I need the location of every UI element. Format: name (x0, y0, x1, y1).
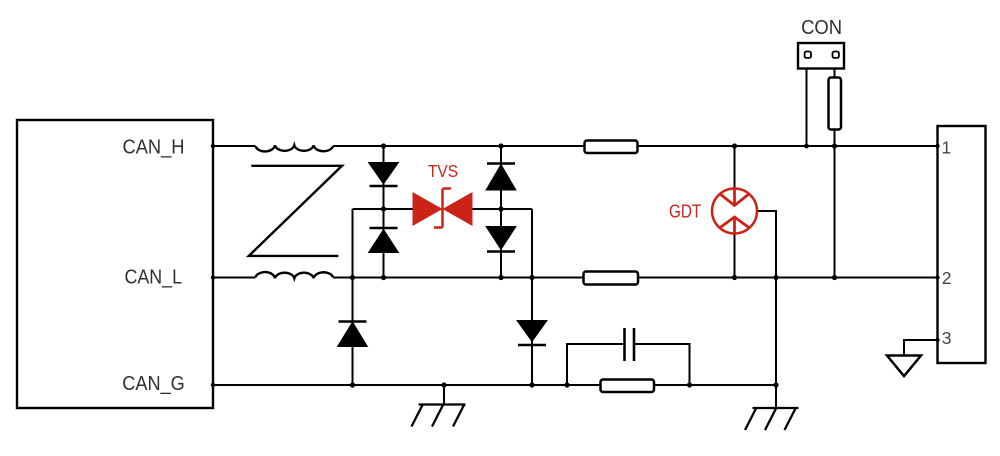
GDT gas discharge tube (712, 189, 757, 234)
wire capacitor left riser (567, 344, 625, 385)
resistor R3 (CAN_G series) (601, 380, 655, 393)
node CAN_H / CON pin 2 (832, 143, 837, 148)
wire CAN_H resistor R1 to connector pin 1 (638, 145, 938, 147)
TVS bidirectional diode (413, 189, 473, 228)
wire CON right pin to resistor R4 (834, 69, 836, 79)
node CAN_L / D2 column (381, 275, 386, 280)
node TVS row / D1 column (381, 206, 386, 211)
ground symbol right (hatched) (745, 408, 799, 430)
wire TVS row right (472, 208, 532, 210)
CON pin hole 1 (805, 52, 811, 58)
node TVS row / D3 column (498, 206, 503, 211)
node CAN_L / GDT (732, 275, 737, 280)
earth arrow pin 3 (887, 356, 921, 377)
wire ground stub left (443, 385, 445, 405)
svg-text:1: 1 (942, 137, 952, 157)
capacitor C1 plates (625, 328, 635, 361)
right connector J1 box (938, 126, 986, 363)
transformer core Z symbol (249, 166, 342, 256)
node CAN_G / left clamp diode D5 (350, 382, 355, 387)
resistor R4 (CON pull) (829, 78, 842, 130)
node CAN_G / right clamp diode D6 (529, 382, 534, 387)
wire vertical diode column D3/D4 (500, 146, 502, 278)
node CAN_G / GDT ground line (773, 382, 778, 387)
svg-text:3: 3 (942, 328, 952, 348)
node CAN_H at J1 pin 1 (935, 144, 939, 148)
inductor L2 (CAN_L choke winding) (256, 272, 334, 278)
wire CAN_L resistor R2 to connector pin 2 (638, 277, 938, 279)
svg-text:TVS: TVS (428, 161, 458, 181)
node CAN_H / D1 column (381, 143, 386, 148)
wire CAN_G from box to resistor R3 (213, 384, 601, 386)
diode D5 (up) (339, 322, 367, 347)
svg-text:CON: CON (801, 17, 842, 39)
wire vertical left clamp branch (352, 209, 354, 385)
left IC box (17, 120, 213, 408)
node CAN_L / right clamp (529, 275, 534, 280)
resistor R1 (CAN_H series) (585, 141, 638, 154)
node CAN_G at box pin (211, 383, 215, 387)
wire GDT bottom lead (734, 235, 736, 278)
node pin 3 at J1 (935, 338, 939, 342)
CON pin hole 2 (833, 52, 839, 58)
node CAN_G / capacitor right riser (687, 382, 692, 387)
node CAN_L / CON pin 2 line (832, 275, 837, 280)
node CAN_L at J1 pin 2 (935, 275, 939, 279)
wire vertical diode column D1/D2 (383, 146, 385, 278)
ground symbol left (hatched) (412, 405, 466, 427)
wire capacitor right riser (634, 344, 690, 385)
svg-text:CAN_G: CAN_G (122, 372, 185, 395)
node CAN_H at box pin (211, 144, 215, 148)
svg-text:GDT: GDT (669, 201, 701, 222)
connector CON box (798, 43, 844, 69)
wire GDT center tap to ground (758, 211, 776, 408)
wire CAN_H choke to resistor R1 (333, 145, 585, 147)
diode D2 (up) (370, 228, 398, 252)
node CAN_L at box pin (211, 275, 215, 279)
node CAN_L / GDT ground line (773, 275, 778, 280)
node CAN_H / GDT (732, 143, 737, 148)
node CAN_G / ground stub (441, 382, 446, 387)
wire resistor R4 to CAN_L (834, 129, 836, 278)
wire TVS row left (353, 208, 414, 210)
wire vertical right clamp branch (531, 209, 533, 385)
diode D6 (down) (518, 321, 546, 345)
node CAN_L / D4 column (498, 275, 503, 280)
node CAN_H / CON pin 1 (804, 144, 809, 149)
node CAN_H / D3 column (498, 143, 503, 148)
node CAN_L / left clamp (350, 275, 355, 280)
diode D4 (down) (487, 227, 515, 252)
diode D1 (down) (370, 163, 398, 186)
wire CAN_H from box to choke (213, 145, 256, 147)
wire CAN_L from box to choke (213, 277, 256, 279)
wire CAN_G resistor R3 to GDT ground line (654, 384, 776, 386)
svg-text:2: 2 (942, 268, 952, 288)
wire GDT top lead (734, 146, 736, 189)
wire connector pin 3 to earth (904, 340, 938, 355)
svg-text:CAN_L: CAN_L (125, 266, 183, 289)
inductor L1 (CAN_H choke winding) (256, 145, 334, 151)
resistor R2 (CAN_L series) (584, 272, 639, 285)
node CAN_G / capacitor left riser (564, 382, 569, 387)
svg-text:CAN_H: CAN_H (123, 136, 185, 159)
diode D3 (up) (487, 164, 515, 190)
wire CON left pin (806, 69, 808, 147)
wire CAN_L choke to resistor R2 (333, 277, 584, 279)
